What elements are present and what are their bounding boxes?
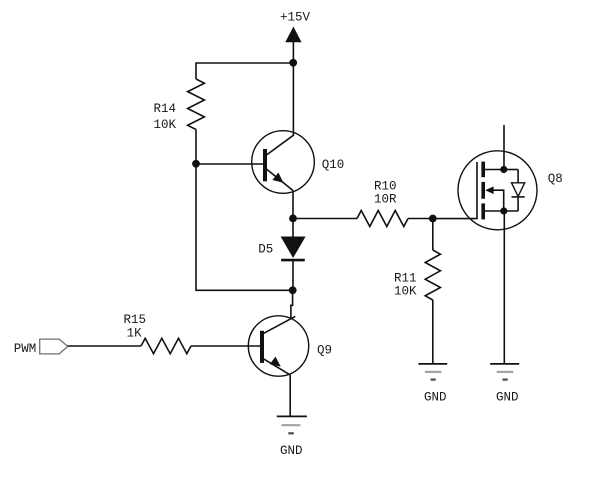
svg-text:GND: GND — [424, 390, 447, 404]
svg-text:R10: R10 — [374, 180, 397, 194]
resistor R10 — [357, 180, 408, 227]
ground GND under Q8 — [490, 364, 519, 405]
wire R10 to gate node — [408, 218, 433, 220]
svg-text:Q9: Q9 — [317, 344, 332, 358]
body diode of Q8 — [512, 170, 525, 212]
svg-text:10K: 10K — [154, 118, 177, 132]
svg-text:Q8: Q8 — [548, 172, 563, 186]
node Q8 drain junction dot — [500, 166, 507, 173]
svg-text:GND: GND — [496, 390, 519, 404]
resistor R14 — [154, 79, 205, 132]
svg-text:D5: D5 — [258, 243, 273, 257]
wire left rail R14 bottom to base node — [195, 130, 197, 165]
node R10 / R11 / gate junction dot — [429, 215, 437, 223]
wire gate node to Q8 gate — [433, 218, 477, 220]
wire node down to R11 — [432, 219, 434, 251]
transistor Q10 — [252, 131, 345, 194]
svg-text:R15: R15 — [124, 313, 147, 327]
resistor R11 — [394, 250, 440, 300]
wire Q8 source to ground — [503, 211, 505, 364]
node Q10 emitter / R10 junction dot — [289, 215, 297, 223]
resistor R15 — [124, 313, 192, 354]
ground GND under R11 — [418, 364, 447, 405]
wire base of Q10 — [196, 163, 263, 165]
transistor Q9 — [248, 316, 332, 376]
node base junction dot — [192, 160, 200, 168]
wire Q9 base from R15 — [191, 345, 260, 347]
ground GND under Q9 — [277, 416, 307, 458]
node +15V junction dot — [289, 59, 297, 67]
svg-text:10K: 10K — [394, 285, 417, 299]
wire Q9 collector with jog — [291, 290, 293, 319]
diode D5 — [258, 219, 305, 291]
wire left rail down to feedback corner — [196, 164, 293, 290]
svg-text:1K: 1K — [127, 327, 143, 341]
svg-text:R14: R14 — [154, 102, 177, 116]
power +15V symbol — [280, 11, 311, 63]
wire top rail from R14 to +15V node — [196, 63, 293, 79]
wire Q10 collector up to +15V node — [292, 63, 294, 135]
wire node to R10 — [293, 218, 357, 220]
PWM port connector — [40, 339, 68, 354]
wire Q9 emitter to ground — [289, 375, 291, 417]
svg-text:+15V: +15V — [280, 11, 311, 25]
wire Q10 emitter down to output node — [292, 191, 294, 219]
svg-text:Q10: Q10 — [322, 158, 345, 172]
wire Q8 drain stub (top) — [503, 125, 505, 169]
node D5 cathode / Q9 collector junction dot — [289, 286, 297, 294]
svg-text:GND: GND — [280, 444, 303, 458]
svg-text:10R: 10R — [374, 193, 397, 207]
wire PWM to R15 — [68, 345, 141, 347]
node Q8 source junction dot — [500, 207, 507, 214]
svg-text:PWM: PWM — [14, 342, 37, 356]
wire R11 to ground — [432, 300, 434, 364]
svg-text:R11: R11 — [394, 272, 417, 286]
mosfet Q8 — [458, 151, 537, 230]
